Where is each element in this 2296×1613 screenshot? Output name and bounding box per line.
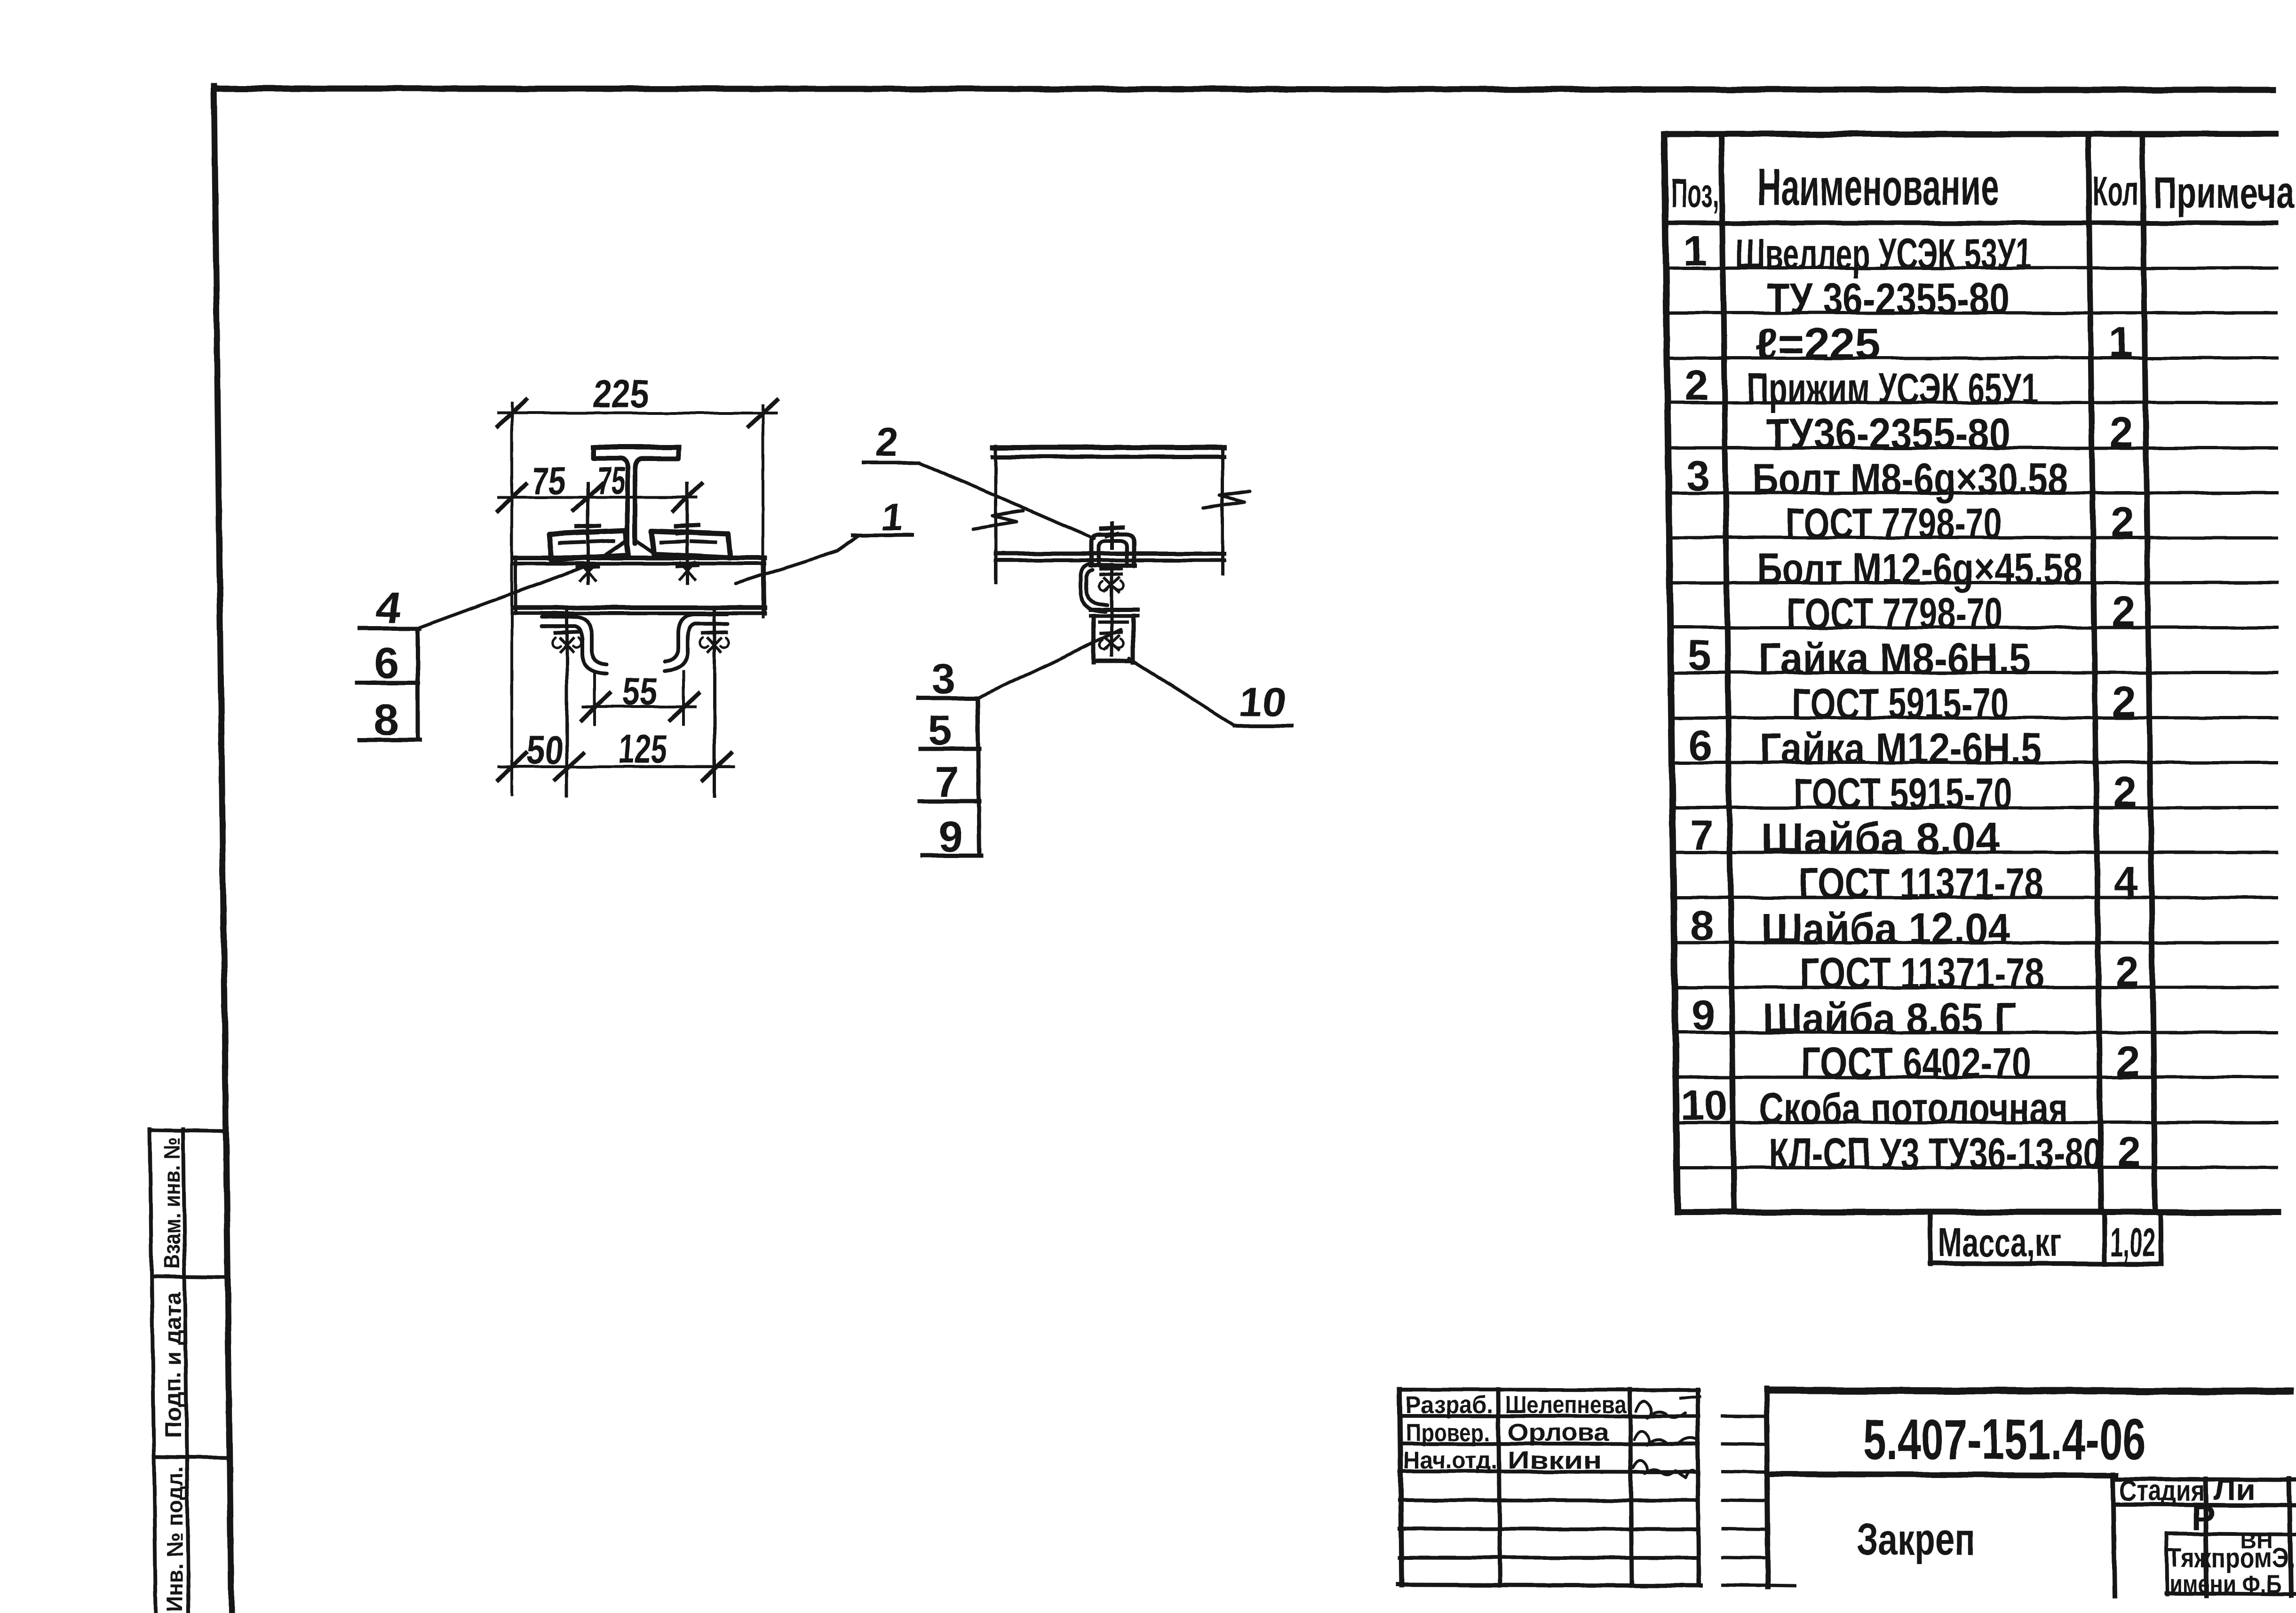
svg-text:8: 8 bbox=[1691, 902, 1714, 949]
svg-text:6: 6 bbox=[374, 638, 399, 688]
svg-text:Шайба 8.04: Шайба 8.04 bbox=[1761, 814, 2000, 863]
svg-text:Поз,: Поз, bbox=[1671, 171, 1719, 216]
svg-text:3: 3 bbox=[931, 655, 955, 703]
svg-text:4: 4 bbox=[2114, 858, 2138, 906]
svg-text:Масса,кг: Масса,кг bbox=[1938, 1220, 2061, 1264]
svg-text:1: 1 bbox=[2109, 319, 2132, 366]
svg-text:2: 2 bbox=[2112, 588, 2135, 636]
svg-text:ГОСТ 6402-70: ГОСТ 6402-70 bbox=[1801, 1039, 2031, 1088]
svg-text:9: 9 bbox=[1692, 992, 1715, 1039]
svg-text:Швеллер УСЭК 53У1: Швеллер УСЭК 53У1 bbox=[1735, 230, 2032, 278]
svg-text:Гайка М12-6Н.5: Гайка М12-6Н.5 bbox=[1760, 724, 2042, 773]
svg-text:2: 2 bbox=[2115, 948, 2139, 995]
svg-text:10: 10 bbox=[1237, 680, 1289, 725]
svg-text:2: 2 bbox=[2111, 499, 2134, 546]
svg-text:Шайба 12.04: Шайба 12.04 bbox=[1762, 904, 2010, 953]
svg-text:2: 2 bbox=[874, 420, 900, 464]
svg-text:КЛ-СП У3 ТУ36-13-80: КЛ-СП У3 ТУ36-13-80 bbox=[1769, 1129, 2102, 1178]
svg-text:125: 125 bbox=[616, 727, 669, 772]
svg-text:ТУ 36-2355-80: ТУ 36-2355-80 bbox=[1767, 274, 2010, 323]
svg-text:2: 2 bbox=[2117, 1128, 2141, 1176]
svg-text:Подп. и дата: Подп. и дата bbox=[161, 1292, 186, 1438]
svg-text:2: 2 bbox=[2113, 679, 2136, 726]
svg-text:Болт М12-6g×45.58: Болт М12-6g×45.58 bbox=[1757, 544, 2082, 593]
svg-text:ГОСТ 11371-78: ГОСТ 11371-78 bbox=[1799, 859, 2043, 908]
svg-text:75: 75 bbox=[595, 460, 627, 502]
svg-text:Ли: Ли bbox=[2213, 1474, 2256, 1506]
svg-text:2: 2 bbox=[1685, 362, 1708, 409]
svg-text:Примечание: Примечание bbox=[2153, 168, 2296, 217]
svg-text:7: 7 bbox=[1690, 812, 1713, 859]
svg-text:Инв. № подл.: Инв. № подл. bbox=[163, 1466, 188, 1612]
svg-text:ГОСТ 11371-78: ГОСТ 11371-78 bbox=[1800, 949, 2044, 998]
svg-text:3: 3 bbox=[1686, 453, 1709, 500]
svg-text:10: 10 bbox=[1681, 1082, 1728, 1129]
svg-text:ГОСТ 5915-70: ГОСТ 5915-70 bbox=[1793, 769, 2012, 818]
svg-text:Закреп: Закреп bbox=[1857, 1515, 1975, 1565]
svg-text:50: 50 bbox=[524, 728, 565, 773]
svg-text:Орлова: Орлова bbox=[1508, 1419, 1609, 1446]
svg-text:ℓ=225: ℓ=225 bbox=[1756, 319, 1880, 368]
svg-text:9: 9 bbox=[938, 813, 962, 861]
svg-text:5.407-151.4-06: 5.407-151.4-06 bbox=[1863, 1407, 2145, 1471]
svg-text:Шелепнева: Шелепнева bbox=[1505, 1391, 1627, 1419]
svg-text:75: 75 bbox=[530, 460, 567, 502]
svg-text:6: 6 bbox=[1689, 722, 1712, 769]
svg-text:Взам. инв. №: Взам. инв. № bbox=[160, 1137, 185, 1269]
svg-text:8: 8 bbox=[374, 695, 398, 744]
svg-text:Нач.отд.: Нач.отд. bbox=[1403, 1447, 1497, 1474]
svg-text:Скоба потолочная: Скоба потолочная bbox=[1759, 1084, 2068, 1133]
svg-text:ГОСТ 5915-70: ГОСТ 5915-70 bbox=[1792, 679, 2009, 728]
svg-text:5: 5 bbox=[928, 707, 952, 755]
svg-text:Наименование: Наименование bbox=[1757, 159, 2000, 216]
svg-text:225: 225 bbox=[591, 372, 651, 416]
svg-text:ТУ36-2355-80: ТУ36-2355-80 bbox=[1766, 409, 2010, 458]
svg-text:5: 5 bbox=[1688, 632, 1711, 679]
svg-text:Шайба 8.65 Г: Шайба 8.65 Г bbox=[1763, 994, 2017, 1043]
svg-text:Ивкин: Ивкин bbox=[1508, 1447, 1602, 1474]
svg-text:ГОСТ 7798-70: ГОСТ 7798-70 bbox=[1786, 499, 2002, 548]
svg-text:Прижим УСЭК 65У1: Прижим УСЭК 65У1 bbox=[1747, 364, 2038, 413]
svg-text:55: 55 bbox=[620, 670, 659, 713]
svg-text:1: 1 bbox=[1684, 228, 1707, 275]
svg-text:ГОСТ 7798-70: ГОСТ 7798-70 bbox=[1787, 589, 2003, 638]
svg-text:2: 2 bbox=[2116, 1038, 2140, 1085]
svg-text:Р: Р bbox=[2192, 1498, 2216, 1538]
svg-text:Разраб.: Разраб. bbox=[1406, 1391, 1493, 1419]
svg-text:7: 7 bbox=[935, 758, 959, 806]
svg-text:2: 2 bbox=[2110, 409, 2133, 456]
svg-text:1,02: 1,02 bbox=[2111, 1220, 2155, 1264]
svg-text:ТяжпромЭ.: ТяжпромЭ. bbox=[2167, 1543, 2295, 1573]
svg-text:имени Ф.Б: имени Ф.Б bbox=[2169, 1570, 2281, 1598]
svg-text:2: 2 bbox=[2113, 769, 2137, 816]
svg-text:Провер.: Провер. bbox=[1406, 1419, 1490, 1446]
svg-text:Кол: Кол bbox=[2092, 167, 2138, 214]
svg-text:Болт М8-6g×30.58: Болт М8-6g×30.58 bbox=[1752, 454, 2068, 503]
svg-text:Гайка М8-6Н.5: Гайка М8-6Н.5 bbox=[1759, 634, 2031, 683]
